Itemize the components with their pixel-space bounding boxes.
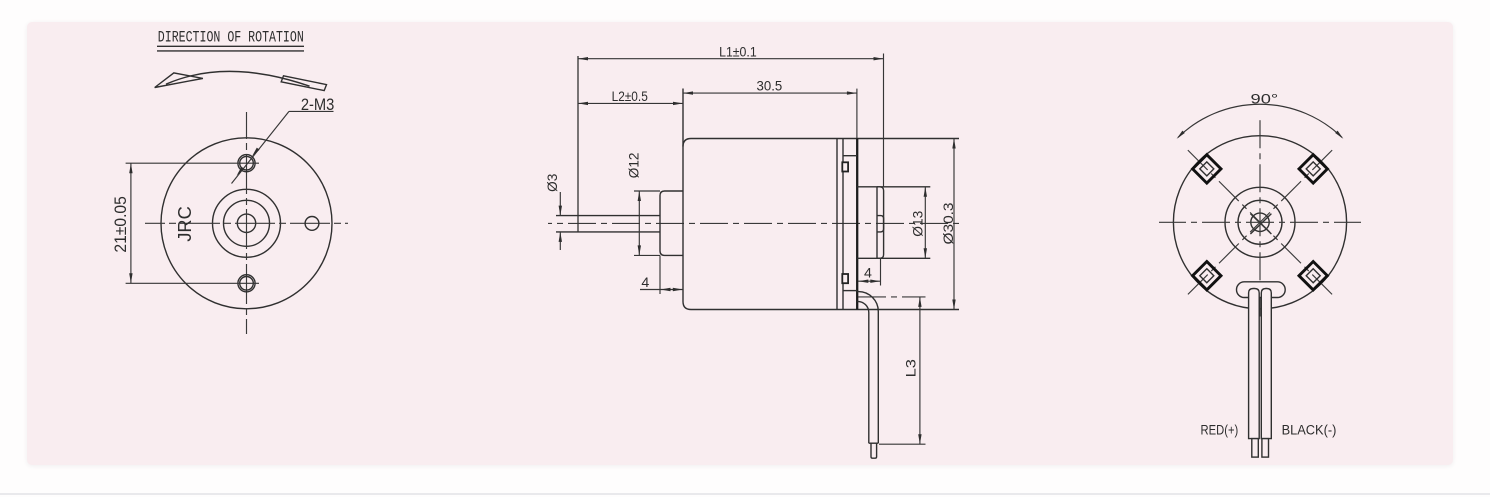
- dimension 30.5 right extension: [856, 89, 858, 139]
- lead wire right (rear view): [1261, 289, 1271, 439]
- rear view shaft circle: [1251, 213, 1269, 231]
- rear view outer circle: [1173, 136, 1346, 309]
- front view shaft circle: [237, 214, 255, 232]
- dimension text ø13 (rotated): [911, 211, 927, 237]
- dimension 4 right line: [858, 280, 881, 283]
- rear boss rounded cap: [877, 187, 884, 258]
- rear view bearing circle: [1238, 200, 1282, 244]
- dimension L2 line: [578, 102, 683, 105]
- brush cap bottom-left inner: [1200, 269, 1214, 283]
- rear view diagonal centerline NE-SW: [1187, 150, 1333, 296]
- can rear second line: [842, 139, 844, 310]
- title text DIRECTION OF ROTATION: [158, 29, 304, 47]
- motor body bottom-left corner: [683, 302, 691, 310]
- dimension text ø3 (rotated): [545, 174, 561, 192]
- svg-text:L1±0.1: L1±0.1: [719, 44, 757, 60]
- bottom separator line: [0, 493, 1490, 495]
- dimension 4 right extension: [880, 258, 882, 285]
- front boss outline: [660, 191, 683, 255]
- svg-text:30.5: 30.5: [757, 78, 783, 94]
- end bell step bottom: [843, 290, 857, 292]
- lead wire left (rear view): [1249, 289, 1260, 439]
- dimension text 4 left: [641, 275, 649, 291]
- mounting hole top 2-M3: [238, 155, 255, 172]
- rotation arrowhead left: [155, 73, 203, 88]
- svg-text:DIRECTION OF ROTATION: DIRECTION OF ROTATION: [158, 29, 304, 47]
- lead wire end line: [869, 442, 879, 444]
- brush cap top-left inner: [1200, 162, 1214, 176]
- brush cap bottom-right inner: [1306, 269, 1320, 283]
- dimension text ø12 (rotated): [627, 152, 643, 178]
- lead wire right stripped end: [1262, 439, 1269, 458]
- brush cap bottom-left outer: [1193, 262, 1221, 290]
- front view vertical centerline: [246, 112, 248, 334]
- shaft top line: [556, 215, 660, 217]
- crimp tab top: [842, 162, 848, 171]
- svg-text:Ø30.3: Ø30.3: [941, 202, 957, 244]
- svg-text:4: 4: [641, 275, 649, 291]
- motor body front face: [682, 89, 684, 302]
- dimension L1 line: [578, 57, 884, 60]
- rear shaft stub: [878, 216, 884, 232]
- dimension text 90deg: [1251, 91, 1279, 107]
- side hole right: [305, 217, 319, 231]
- crimp tab bottom: [842, 274, 848, 283]
- rear shaft cross mark: [1250, 214, 1271, 234]
- svg-text:RED(+): RED(+): [1201, 422, 1239, 438]
- front view horizontal centerline: [145, 222, 348, 224]
- label JRC (rotated): [175, 206, 195, 241]
- brush cap top-left outer: [1193, 155, 1221, 183]
- svg-text:BLACK(-): BLACK(-): [1282, 422, 1337, 438]
- lead wire inner bend: [857, 301, 869, 443]
- dimension text L1±0.1: [719, 44, 757, 60]
- rear view horizontal centerline: [1159, 221, 1361, 223]
- front view boss circle: [213, 189, 281, 257]
- lead wire exit reference centerline: [858, 296, 926, 298]
- dimension 21±0.05 line: [129, 163, 132, 283]
- motor body top-left corner: [683, 139, 691, 147]
- svg-text:Ø12: Ø12: [627, 152, 643, 178]
- dimension 4 left line: [640, 288, 683, 291]
- dimension text ø30.3 (rotated): [941, 202, 957, 244]
- dimension ø12 extension top: [634, 190, 660, 192]
- title underline double: [157, 46, 304, 51]
- dimension 30.5 line: [683, 91, 857, 94]
- lead wire outer bend: [857, 292, 878, 444]
- dimension 21±0.05 extension bottom: [126, 282, 259, 284]
- mounting hole top tick: [234, 162, 259, 164]
- dimension 4 left extension: [659, 255, 661, 294]
- shaft end face / L1-L2 left extension: [577, 56, 579, 232]
- svg-text:L3: L3: [904, 359, 920, 377]
- dimension ø30.3 line: [952, 139, 955, 310]
- rear boss ø13 bottom edge + extension: [857, 257, 930, 259]
- rotation direction arc: [166, 71, 310, 86]
- dimension ø3 line: [559, 192, 562, 250]
- leader line 2-M3: [232, 111, 290, 183]
- svg-text:Ø13: Ø13: [911, 211, 927, 237]
- motor body bottom edge + ø30.3 extension: [691, 309, 959, 311]
- motor body top edge + ø30.3 extension: [691, 138, 959, 140]
- dimension text 4 right: [864, 266, 872, 282]
- wire grommet: [1237, 282, 1286, 298]
- end bell face: [856, 139, 858, 310]
- label 2-M3: [289, 96, 334, 114]
- svg-text:Ø3: Ø3: [545, 174, 561, 192]
- 90 degree dimension arc: [1177, 104, 1344, 139]
- dimension ø13 line: [924, 187, 927, 258]
- brush cap bottom-right outer: [1299, 262, 1327, 290]
- rear view diagonal centerline NW-SE: [1187, 150, 1333, 296]
- rear view vertical centerline: [1259, 118, 1261, 317]
- svg-text:L2±0.5: L2±0.5: [612, 89, 648, 105]
- dimension text L2±0.5: [612, 89, 648, 105]
- rear view boss circle: [1225, 187, 1295, 257]
- dimension text L3 (rotated): [904, 359, 920, 377]
- svg-text:4: 4: [864, 266, 872, 282]
- svg-text:JRC: JRC: [175, 206, 195, 241]
- rear boss right edge: [876, 187, 878, 258]
- rear boss ø13 top edge + extension: [857, 186, 930, 188]
- front view outer circle (flange): [161, 138, 332, 309]
- label RED(+): [1201, 422, 1239, 438]
- brush cap top-right inner: [1306, 162, 1320, 176]
- dimension L1 right extension: [883, 54, 885, 187]
- lead wire stripped end: [871, 443, 877, 458]
- mounting hole bottom: [238, 275, 255, 292]
- svg-text:21±0.05: 21±0.05: [112, 196, 130, 252]
- dimension text 21±0.05 (rotated): [112, 196, 130, 252]
- front view bearing circle: [224, 200, 270, 246]
- dimension ø12 extension bottom: [634, 254, 660, 256]
- brush cap top-right outer: [1299, 155, 1327, 183]
- dimension L3 line: [918, 297, 921, 444]
- dimension text 30.5: [757, 78, 783, 94]
- shaft bottom line: [556, 231, 660, 233]
- dimension ø12 line: [638, 191, 641, 255]
- can rear edge: [836, 139, 838, 310]
- lead wire left stripped end: [1252, 439, 1259, 458]
- label BLACK(-): [1282, 422, 1337, 438]
- rotation tail marker right: [281, 76, 326, 91]
- dimension 21±0.05 extension top: [126, 162, 234, 164]
- dimension L3 bottom extension: [879, 443, 926, 445]
- end bell step top: [843, 155, 857, 157]
- side view axis centerline: [548, 222, 962, 224]
- svg-text:90°: 90°: [1251, 91, 1279, 107]
